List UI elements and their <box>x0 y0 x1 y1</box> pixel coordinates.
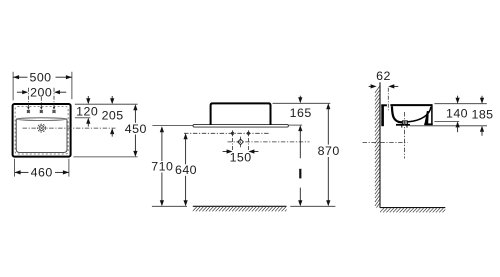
drain mark diamond <box>238 139 244 145</box>
svg-text:205: 205 <box>102 108 124 122</box>
wall line <box>379 82 381 207</box>
drain centerline horizontal <box>23 127 116 129</box>
dimension 165 line tick <box>299 169 301 179</box>
svg-text:62: 62 <box>376 69 391 83</box>
dimension 870 <box>318 103 340 206</box>
dimension 120 <box>76 96 98 127</box>
dimension 500 extension line left <box>12 72 14 101</box>
svg-text:150: 150 <box>230 151 252 165</box>
bottom extension line (left view right side) <box>73 156 137 158</box>
fixing hole extension left <box>232 138 234 150</box>
dimension 460 <box>15 166 69 180</box>
basin bowl inner curve (side view) <box>407 107 431 122</box>
drain centerline horizontal (front view) <box>228 141 310 143</box>
basin hidden edge (dashed inner outline) <box>15 107 68 155</box>
svg-text:200: 200 <box>30 85 52 99</box>
dimension 205 <box>102 96 124 137</box>
tap hole centerline right <box>53 88 55 107</box>
basin inner wall outline <box>16 120 67 153</box>
svg-text:165: 165 <box>290 106 312 120</box>
dimension 500 extension line right <box>71 72 73 100</box>
wall bracket <box>381 105 384 127</box>
dimension 450 <box>125 104 147 157</box>
tap hole right <box>52 110 55 113</box>
dimension 460 extension line left <box>14 159 16 177</box>
dimension 185 <box>471 96 493 136</box>
fixing hole extension right <box>247 138 249 150</box>
dimension 640 <box>175 133 197 206</box>
svg-text:710: 710 <box>151 160 173 174</box>
countertop extension line left <box>152 125 193 127</box>
svg-text:140: 140 <box>446 106 468 120</box>
tap hole middle arrow <box>40 107 42 110</box>
basin right outer edge (side view) <box>431 104 433 124</box>
fixing hole left <box>231 130 233 136</box>
dimension 120 lower extension line <box>75 117 90 119</box>
top extension line (left view right side) <box>75 103 138 105</box>
fixing holes centerline <box>184 132 270 134</box>
dimension 140 <box>446 96 468 133</box>
wall hatching <box>375 86 380 214</box>
floor hatching (side view) <box>380 208 447 212</box>
drain centerline vertical (side view) <box>404 112 406 159</box>
drain centerline vertical (front view) <box>240 137 242 148</box>
dimension 710 <box>151 126 173 206</box>
tap hole middle <box>40 110 43 113</box>
tap hole left <box>27 110 30 113</box>
tap hole centerline left <box>27 88 29 107</box>
countertop extension line right <box>289 124 303 126</box>
svg-text:460: 460 <box>31 166 53 180</box>
floor hatching (front view) <box>193 207 290 212</box>
tap hole centerline middle <box>40 97 42 107</box>
drain centerline horizontal (side view) <box>363 141 408 143</box>
svg-text:870: 870 <box>318 144 340 158</box>
fixing hole centerline (side view) <box>387 88 389 112</box>
dimension 460 extension line right <box>68 159 70 177</box>
tap hole right arrow <box>53 107 55 110</box>
svg-text:450: 450 <box>125 122 147 136</box>
floor extension line left <box>152 205 187 207</box>
basin bowl bottom (side view) <box>397 121 403 123</box>
basin front view body <box>211 103 271 125</box>
tap hole left arrow <box>27 107 29 110</box>
drain pipe stubs <box>402 125 407 127</box>
svg-text:500: 500 <box>29 70 51 84</box>
basin rim front edge (flat oval) <box>16 118 67 121</box>
dimension 165 <box>290 96 312 207</box>
svg-text:120: 120 <box>76 105 98 119</box>
floor extension line right <box>290 205 335 207</box>
top extension line (front view) <box>273 102 331 104</box>
drain outer ring <box>38 124 46 132</box>
svg-text:185: 185 <box>471 108 493 122</box>
floor line (side view) <box>380 207 445 209</box>
dimension 150 <box>223 149 259 164</box>
basin outer body (top view) <box>13 104 71 157</box>
basin front wall section (side view) <box>425 111 429 124</box>
dimension 62 <box>369 69 399 88</box>
dimension 500 <box>13 70 72 84</box>
dimension 140 lower extension line <box>434 120 459 122</box>
drain inner circle <box>39 126 44 131</box>
dimension 185 lower extension line <box>410 125 487 127</box>
basin underside (side view) <box>396 124 410 126</box>
basin rim deck (side view) <box>390 104 432 106</box>
fixing hole right <box>247 130 249 136</box>
countertop slab <box>193 124 288 127</box>
basin back wall (side view) <box>392 106 402 122</box>
floor line (front view) <box>193 205 287 207</box>
drain (side view) <box>402 121 407 125</box>
basin rim deck back section (side view) <box>381 104 387 106</box>
drain cross <box>40 127 43 130</box>
basin front foot (side view) <box>424 123 433 125</box>
dimension 200 <box>17 85 66 99</box>
svg-text:640: 640 <box>175 163 197 177</box>
top extension line (side view) <box>434 103 486 105</box>
